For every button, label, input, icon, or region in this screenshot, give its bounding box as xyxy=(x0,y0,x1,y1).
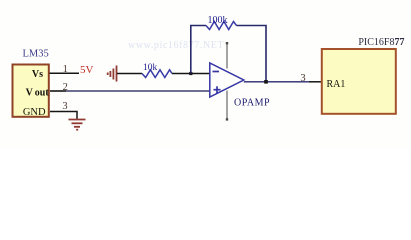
junction node B xyxy=(264,80,268,84)
wire feedback left branch xyxy=(191,26,206,74)
svg-text:RA1: RA1 xyxy=(327,79,346,90)
svg-text:100k: 100k xyxy=(208,15,228,26)
svg-text:www.pic16f877.NET: www.pic16f877.NET xyxy=(128,40,224,51)
svg-text:1: 1 xyxy=(63,64,68,75)
pin 2 wire (Vout to op-amp + input) xyxy=(50,90,66,92)
svg-text:GND: GND xyxy=(23,107,46,118)
svg-text:PIC16F877: PIC16F877 xyxy=(358,37,404,48)
resistor R2 100k xyxy=(206,22,237,30)
svg-text:OPAMP: OPAMP xyxy=(234,97,270,108)
pin wire RA1 xyxy=(309,81,322,83)
svg-text:3: 3 xyxy=(62,101,67,112)
component U1 LM35 body xyxy=(13,65,49,117)
op-amp U2 triangle xyxy=(210,63,244,97)
wire Vout net xyxy=(66,90,210,92)
op-amp V- power pin stub xyxy=(226,91,228,120)
wire R1 to op-amp inverting input xyxy=(172,73,210,75)
component U3 PIC16F877 body xyxy=(322,49,396,114)
svg-text:5V: 5V xyxy=(80,64,94,76)
svg-text:2: 2 xyxy=(63,82,68,93)
ground symbol (below LM35) xyxy=(69,120,86,130)
op-amp V+ power pin stub xyxy=(226,43,228,69)
op-amp minus input marker xyxy=(213,71,220,73)
resistor R1 10k xyxy=(142,70,172,78)
junction node A xyxy=(189,72,192,75)
ground symbol (left, rotated, at 10k input) xyxy=(108,66,117,82)
pin 3 wire (GND pin to ground) xyxy=(50,112,77,119)
svg-text:V out: V out xyxy=(26,88,50,99)
svg-text:LM35: LM35 xyxy=(23,49,49,60)
wire feedback right branch xyxy=(237,26,267,82)
wire ground to R1 xyxy=(117,73,142,75)
op-amp plus input marker xyxy=(214,89,221,91)
wire op-amp output to RA1 xyxy=(244,81,309,83)
pin 1 wire (Vs to 5V) xyxy=(50,72,80,74)
svg-text:3: 3 xyxy=(300,73,305,84)
svg-text:Vs: Vs xyxy=(32,69,43,80)
svg-text:10k: 10k xyxy=(143,63,158,73)
